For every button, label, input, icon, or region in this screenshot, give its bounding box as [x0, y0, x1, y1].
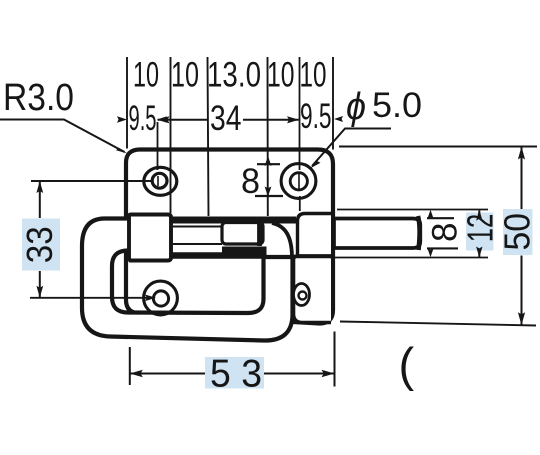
svg-text:12: 12: [459, 214, 500, 243]
block B1/B2 divider: [294, 255, 331, 259]
dimension extension lines top: [126, 57, 128, 149]
bolt knob: [222, 223, 263, 245]
svg-text:34: 34: [210, 99, 242, 138]
screw hole 1: [144, 167, 177, 195]
dim 12: [337, 209, 488, 211]
dim 50: [339, 146, 537, 148]
dim 53: [129, 347, 131, 385]
bolt shaft top line: [173, 226, 222, 228]
svg-text:5 3: 5 3: [210, 353, 262, 396]
guide block B1: [298, 214, 332, 257]
svg-text:5.0: 5.0: [372, 86, 422, 125]
pin on block B2: [294, 284, 310, 306]
wire hole-1 center line: [157, 122, 159, 170]
bolt top bar: [171, 217, 296, 224]
wire hole-2 center line: [299, 57, 301, 170]
svg-text:ϕ: ϕ: [346, 86, 366, 128]
svg-text:9.5: 9.5: [300, 97, 332, 136]
svg-text:33: 33: [19, 226, 60, 263]
base plate: [126, 150, 333, 324]
bar under knob: [222, 247, 267, 253]
svg-text:10: 10: [171, 56, 199, 95]
screw hole 3: [144, 281, 178, 315]
svg-text:13.0: 13.0: [207, 56, 261, 95]
svg-text:R3.0: R3.0: [3, 77, 74, 119]
bolt shaft bottom line: [173, 243, 222, 245]
handle loop (bail): [82, 219, 293, 341]
svg-text:10: 10: [300, 56, 327, 95]
guide block A: [129, 215, 171, 262]
highlight box 50: [503, 209, 533, 255]
svg-text:8: 8: [426, 223, 465, 242]
dim 33: [31, 180, 153, 182]
svg-text:(: (: [399, 338, 415, 391]
highlight box 12: [466, 213, 494, 251]
svg-text:50: 50: [497, 213, 538, 251]
dim 8 rod: [418, 216, 420, 250]
highlight box 53: [205, 357, 264, 389]
rod: [334, 219, 420, 249]
highlight box 33: [22, 219, 60, 271]
screw hole 2: [281, 164, 316, 199]
bolt corner curve: [272, 223, 292, 256]
svg-text:10: 10: [267, 56, 295, 95]
bolt bottom bar: [171, 252, 267, 259]
guide block B2 foot: [294, 256, 332, 323]
svg-text:9.5: 9.5: [129, 99, 157, 138]
svg-text:10: 10: [133, 56, 159, 95]
